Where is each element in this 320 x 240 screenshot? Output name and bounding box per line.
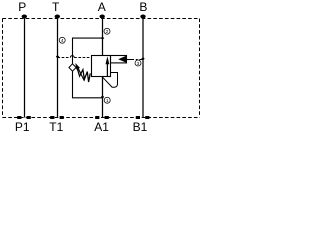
svg-text:1: 1 (106, 98, 109, 104)
svg-text:P: P (18, 0, 26, 14)
svg-text:T1: T1 (49, 120, 63, 134)
svg-text:B: B (139, 0, 147, 14)
svg-text:A1: A1 (94, 120, 109, 134)
svg-text:4: 4 (61, 38, 64, 44)
svg-text:P1: P1 (15, 120, 30, 134)
svg-text:T: T (52, 0, 60, 14)
svg-text:2: 2 (106, 29, 109, 35)
svg-text:B1: B1 (133, 120, 148, 134)
svg-text:A: A (98, 0, 106, 14)
svg-text:3: 3 (137, 61, 140, 67)
